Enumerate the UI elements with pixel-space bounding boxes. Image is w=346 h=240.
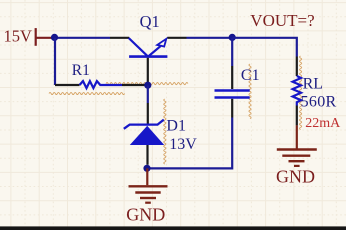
- wire node C to C1 bottom: [147, 118, 232, 169]
- screenshot bottom black bar: [0, 226, 346, 230]
- node D junction: [229, 34, 236, 41]
- ground symbol left stem: [146, 168, 148, 185]
- node B junction: [144, 82, 151, 89]
- transistor Q1 body: [129, 38, 168, 57]
- svg-text:GND: GND: [126, 205, 165, 225]
- svg-text:C1: C1: [241, 67, 260, 84]
- compile-mask squiggle along RL: [300, 56, 302, 129]
- svg-text:R1: R1: [72, 62, 90, 79]
- Q1 emitter pin: [167, 37, 186, 39]
- node C junction: [143, 165, 150, 172]
- Q1 collector pin: [110, 37, 129, 39]
- svg-text:D1: D1: [166, 118, 186, 135]
- wire Q1 emitter to node D: [187, 37, 233, 39]
- wire node A to Q1 collector: [53, 37, 110, 39]
- svg-text:13V: 13V: [169, 136, 197, 153]
- Q1 base pin: [147, 58, 149, 82]
- C1 top pin: [231, 66, 233, 89]
- R1 right pin: [122, 84, 145, 86]
- resistor RL body: [293, 76, 301, 106]
- C1 bottom pin: [231, 99, 233, 118]
- node A junction: [51, 34, 58, 41]
- D1 cathode pin: [147, 103, 149, 124]
- wire node D to RL: [232, 38, 297, 57]
- D1 anode pin: [146, 145, 148, 165]
- compile-mask squiggle along D1: [164, 99, 166, 164]
- ground symbol left bars: [129, 186, 168, 202]
- svg-text:RL: RL: [303, 75, 323, 92]
- zener diode D1 body: [124, 120, 164, 145]
- wire node A down to R1: [54, 38, 56, 85]
- wire node D down to C1: [231, 38, 233, 66]
- wire node B to D1: [147, 85, 149, 103]
- resistor R1 body: [80, 81, 123, 88]
- svg-text:GND: GND: [276, 166, 315, 186]
- svg-text:VOUT=?: VOUT=?: [250, 11, 314, 30]
- svg-text:Q1: Q1: [140, 12, 160, 31]
- compile-mask squiggle along C1: [249, 64, 251, 119]
- compile-mask squiggle under R1 wire: [49, 92, 125, 94]
- power port 15V lead: [36, 37, 52, 39]
- svg-text:15V: 15V: [4, 26, 33, 45]
- svg-text:22mA: 22mA: [305, 116, 341, 131]
- ground symbol right bars: [277, 150, 317, 166]
- RL bottom pin: [296, 106, 298, 126]
- ground symbol right stem: [296, 125, 298, 148]
- R1 left pin: [55, 84, 80, 86]
- svg-text:560R: 560R: [301, 93, 337, 110]
- power port 15V bar: [35, 28, 37, 46]
- compile-mask squiggle on base-node wire: [106, 83, 188, 85]
- RL top pin: [296, 57, 298, 77]
- capacitor C1 plates: [215, 91, 250, 98]
